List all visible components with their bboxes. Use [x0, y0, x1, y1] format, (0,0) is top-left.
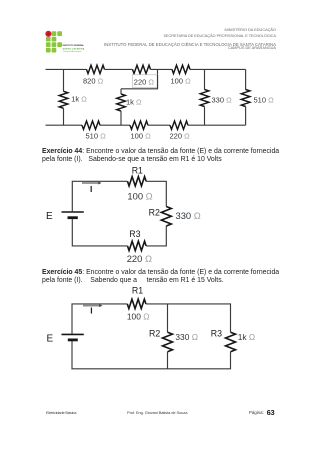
resistor R3 ckt44	[128, 241, 147, 250]
label R2 ckt45	[149, 329, 160, 339]
svg-text:1k Ω: 1k Ω	[238, 332, 255, 342]
resistor 1k ohm middle branch	[117, 89, 126, 125]
label R3 ckt44	[129, 229, 140, 239]
label R1 ckt44	[132, 165, 143, 175]
wire ckt44 bottom-left	[72, 219, 127, 246]
wire bottom rail segment 4	[188, 124, 246, 126]
label 100 ohm top	[171, 76, 192, 85]
wire ckt45 middle branch upper	[167, 304, 169, 332]
exercise 45 text	[42, 269, 292, 285]
current arrow I ckt45	[83, 304, 102, 307]
svg-text:E: E	[47, 333, 54, 344]
resistor 510 ohm (bottom)	[82, 121, 100, 129]
wire top rail segment 1	[46, 68, 87, 70]
svg-text:220 Ω: 220 Ω	[127, 253, 152, 264]
svg-text:I: I	[90, 305, 92, 315]
resistor 100 ohm (top)	[172, 65, 190, 73]
wire loop ckt44 top-left	[72, 181, 127, 211]
wire loop ckt45 top-left	[72, 304, 127, 334]
footer left: Eletricidade Básica	[46, 411, 76, 415]
resistor R3 ckt45	[226, 332, 236, 352]
svg-text:R3: R3	[129, 229, 140, 239]
footer right: page number 63	[267, 409, 275, 416]
resistor R2 ckt44	[161, 207, 171, 226]
label 820 ohm	[83, 76, 104, 85]
wire bottom rail segment 1	[46, 124, 83, 126]
svg-text:510 Ω: 510 Ω	[86, 132, 107, 141]
label 510 ohm right	[254, 95, 275, 104]
wire ckt45 top-right	[146, 304, 231, 332]
svg-text:820 Ω: 820 Ω	[83, 76, 104, 85]
resistor 220 ohm (top)	[133, 65, 151, 73]
svg-text:R1: R1	[132, 285, 143, 295]
wire bottom rail segment 3	[148, 124, 170, 126]
svg-text:E: E	[46, 211, 53, 222]
resistor 820 ohm (top)	[87, 65, 105, 73]
logo red circle	[45, 31, 51, 37]
svg-text:100 Ω: 100 Ω	[131, 132, 152, 141]
svg-text:100 Ω: 100 Ω	[127, 190, 152, 201]
svg-text:1k Ω: 1k Ω	[126, 97, 142, 106]
label 330 ohm ckt45	[175, 332, 198, 342]
svg-text:330 Ω: 330 Ω	[176, 210, 201, 221]
resistor 330 ohm branch	[200, 69, 209, 125]
exercise 44 text	[42, 148, 292, 164]
battery E ckt45	[62, 334, 84, 340]
label 100 ohm bottom	[131, 132, 152, 141]
header ministry text line 4	[228, 47, 276, 51]
wire top rail segment 2	[105, 68, 133, 70]
IFSC logo	[40, 26, 95, 58]
svg-text:I: I	[90, 184, 92, 194]
resistor 1k ohm left branch	[59, 69, 68, 125]
label I ckt44	[90, 184, 92, 194]
label 510 ohm bottom	[86, 132, 107, 141]
label E ckt45	[47, 333, 54, 344]
svg-text:330 Ω: 330 Ω	[175, 332, 198, 342]
svg-text:1k Ω: 1k Ω	[71, 94, 87, 103]
wire ckt45 right side lower	[72, 341, 231, 369]
svg-text:330 Ω: 330 Ω	[212, 95, 233, 104]
current arrow I ckt44	[82, 182, 101, 185]
label 1k ohm left	[71, 94, 87, 103]
svg-text:220 Ω: 220 Ω	[134, 77, 155, 86]
wire top rail segment 4	[190, 68, 246, 70]
label 1k ohm ckt45	[238, 332, 255, 342]
header ministry text line 2	[164, 35, 276, 39]
svg-text:R2: R2	[149, 329, 160, 339]
svg-text:220 Ω: 220 Ω	[170, 132, 191, 141]
label 220 ohm boxed	[132, 75, 157, 89]
resistor R1 ckt45	[127, 299, 146, 308]
resistor R1 ckt44	[128, 177, 147, 186]
resistor 100 ohm (bottom)	[130, 121, 148, 129]
wire top rail segment 3	[151, 68, 173, 70]
footer center: professor name	[127, 411, 187, 415]
wire ckt45 middle branch lower	[167, 352, 169, 369]
header ministry text line 3	[104, 43, 276, 47]
label R1 ckt45	[132, 285, 143, 295]
label R3 ckt45	[211, 329, 222, 339]
logo green squares grid	[52, 31, 57, 36]
label 220 ohm bottom	[170, 132, 191, 141]
wire jog for middle 1k branch	[121, 69, 158, 88]
svg-text:100 Ω: 100 Ω	[171, 76, 192, 85]
wire bottom rail segment 2	[100, 124, 130, 126]
label 220 ohm ckt44	[127, 253, 152, 264]
svg-text:R2: R2	[149, 208, 160, 218]
resistor R2 ckt45	[163, 332, 173, 352]
label 330 ohm ckt44	[176, 210, 201, 221]
wire ckt44 right side lower and bottom-right	[146, 226, 166, 246]
label R2 ckt44	[149, 208, 160, 218]
wire ckt44 top-right and right side upper	[146, 181, 166, 206]
footer right: page label	[249, 411, 264, 415]
svg-text:R3: R3	[211, 329, 222, 339]
label 1k ohm middle	[126, 97, 142, 106]
svg-text:R1: R1	[132, 165, 143, 175]
svg-text:510 Ω: 510 Ω	[254, 95, 275, 104]
battery E ckt44	[62, 212, 84, 218]
header ministry text line 1	[225, 29, 276, 33]
label 330 ohm	[212, 95, 233, 104]
resistor 510 ohm right branch	[241, 69, 250, 125]
label I ckt45	[90, 305, 92, 315]
resistor 220 ohm (bottom)	[170, 121, 188, 129]
label E ckt44	[46, 211, 53, 222]
label 100 ohm ckt45	[127, 312, 150, 322]
logo institute name text	[63, 44, 85, 53]
svg-text:100 Ω: 100 Ω	[127, 312, 150, 322]
label 100 ohm ckt44	[127, 190, 152, 201]
